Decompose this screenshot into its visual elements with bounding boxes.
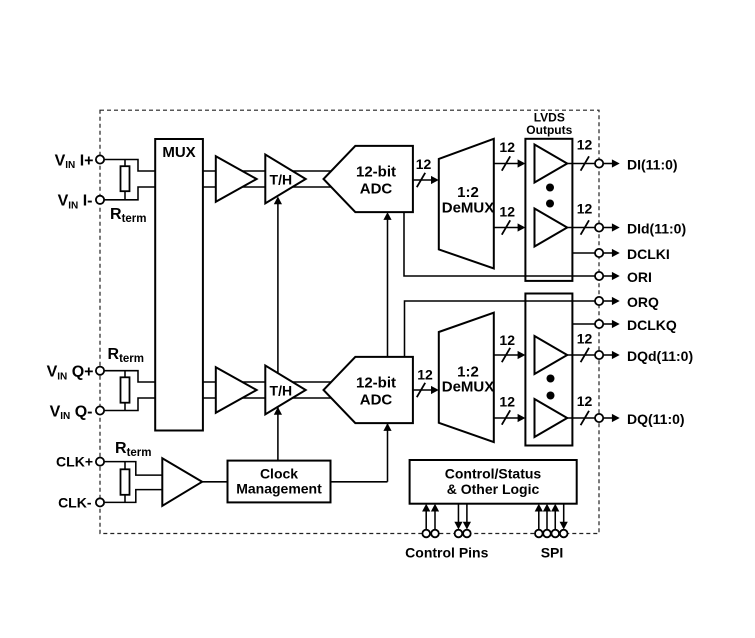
- arrowhead clock into ADC Q: [383, 423, 391, 431]
- svg-text:T/H: T/H: [270, 382, 293, 398]
- MUX block: [155, 139, 203, 431]
- terminal DCLKI: [595, 246, 670, 262]
- svg-text:12: 12: [499, 204, 515, 220]
- svg-text:CLK-: CLK-: [58, 494, 92, 510]
- ADC Q block: [324, 357, 413, 423]
- wire DeMUX Q output bus lower: [494, 417, 518, 419]
- svg-text:12: 12: [577, 201, 593, 217]
- control pin wire down 1: [457, 504, 459, 523]
- LVDS buffer DId: [535, 209, 568, 247]
- terminal CLK-: [96, 498, 104, 506]
- Clock Management block: [228, 461, 331, 503]
- wire DI bus to terminal: [567, 163, 595, 165]
- T/H I: [265, 155, 305, 204]
- svg-text:DI(11:0): DI(11:0): [627, 157, 678, 173]
- wire DQ bus to terminal: [567, 417, 595, 419]
- SPI terminal 4: [560, 530, 568, 538]
- svg-text:12: 12: [499, 139, 515, 155]
- wire DId bus to terminal: [567, 227, 595, 229]
- svg-text:12: 12: [499, 332, 515, 348]
- DeMUX Q block: [439, 313, 494, 442]
- wire ADC sampling clock vertical: [387, 214, 389, 482]
- svg-text:T/H: T/H: [270, 171, 293, 187]
- svg-text:DeMUX: DeMUX: [442, 379, 495, 396]
- bus label 12 DId: [577, 201, 593, 235]
- wire VIN Q- to MUX: [100, 398, 155, 411]
- amplifier Q: [216, 367, 257, 413]
- bus label 12 ADC Q out: [417, 367, 433, 398]
- wire clock buffer to Clock Management: [202, 481, 227, 483]
- svg-text:VIN Q-: VIN Q-: [50, 403, 93, 422]
- terminal ORQ: [595, 294, 659, 310]
- SPI terminal 1: [535, 530, 543, 538]
- terminal DQd: [595, 348, 693, 364]
- wire ORQ from ADC Q to output: [405, 301, 596, 357]
- LVDS buffer DQd: [535, 336, 568, 374]
- svg-text:ORQ: ORQ: [627, 294, 659, 310]
- svg-text:12: 12: [577, 393, 593, 409]
- SPI terminal 2: [543, 530, 551, 538]
- T/H Q: [265, 366, 305, 415]
- wire VIN I- to MUX: [100, 187, 155, 200]
- svg-text:12-bit: 12-bit: [356, 164, 396, 181]
- wire T/H sampling clock vertical: [277, 199, 279, 461]
- LVDS buffer DQ: [535, 399, 568, 437]
- svg-text:Control Pins: Control Pins: [405, 544, 488, 560]
- bus label 12 ADC I out: [416, 156, 432, 187]
- svg-text:Management: Management: [236, 481, 322, 497]
- svg-text:12-bit: 12-bit: [356, 375, 396, 392]
- terminal VIN I+: [96, 155, 104, 163]
- wire Rterm CLK stubs: [124, 462, 126, 503]
- ellipsis dots I: [546, 184, 554, 208]
- svg-text:12: 12: [417, 367, 433, 383]
- svg-text:ADC: ADC: [360, 392, 393, 409]
- wire CLK- to clock buffer: [100, 490, 162, 503]
- chip boundary dashed border: [100, 110, 599, 533]
- wire CLK+ to clock buffer: [100, 462, 162, 476]
- bus label 12 DeMUX I out upper: [499, 139, 515, 171]
- bus label 12 DeMUX Q out upper: [499, 332, 515, 362]
- wire VIN I+ to MUX: [100, 160, 155, 172]
- bus label 12 DI: [577, 137, 593, 171]
- arrowhead clock into T/H Q: [274, 407, 282, 415]
- svg-text:SPI: SPI: [541, 544, 564, 560]
- wire ORI from ADC I to output: [404, 212, 595, 276]
- SPI wire down 4: [563, 504, 565, 523]
- svg-text:CLK+: CLK+: [56, 454, 93, 470]
- wire Rterm Q stubs: [124, 371, 126, 411]
- svg-text:12: 12: [577, 331, 593, 347]
- wire DeMUX I output bus lower: [494, 227, 518, 229]
- svg-text:12: 12: [577, 137, 593, 153]
- terminal VIN Q+: [96, 367, 104, 375]
- LVDS output block Q: [525, 294, 572, 446]
- svg-text:VIN Q+: VIN Q+: [47, 364, 94, 383]
- svg-text:MUX: MUX: [162, 144, 195, 161]
- wire VIN Q+ to MUX: [100, 371, 155, 382]
- resistor Rterm CLK: [121, 469, 130, 495]
- control pin terminal 3: [455, 530, 463, 538]
- wire DeMUX Q output bus upper: [494, 354, 518, 356]
- wire DQd bus to terminal: [567, 354, 595, 356]
- wire Clock Management to ADC clock line: [331, 481, 388, 483]
- control pin wire up 2: [434, 510, 436, 530]
- bus label 12 DeMUX Q out lower: [499, 394, 515, 425]
- control pin terminal 4: [463, 530, 471, 538]
- wire DCLKQ to terminal: [572, 323, 595, 325]
- ADC I block: [324, 146, 413, 212]
- DeMUX I block: [439, 139, 494, 269]
- bus label 12 DQ: [577, 393, 593, 425]
- svg-text:Outputs: Outputs: [526, 123, 572, 137]
- control pin terminal 2: [431, 530, 439, 538]
- SPI wire up 3: [554, 510, 556, 530]
- svg-text:Clock: Clock: [260, 465, 298, 481]
- bus label 12 DQd: [577, 331, 593, 363]
- wire ADC Q to DeMUX Q bus: [413, 389, 431, 391]
- svg-text:DeMUX: DeMUX: [442, 199, 495, 216]
- terminal CLK+: [96, 458, 104, 466]
- terminal VIN I-: [96, 196, 104, 204]
- wire Q differential pair MUX to ADC: [203, 382, 340, 398]
- svg-text:& Other Logic: & Other Logic: [447, 481, 540, 497]
- control pin wire down 2: [466, 504, 468, 523]
- control pin wire up 1: [425, 510, 427, 530]
- terminal DQ: [595, 411, 685, 427]
- svg-text:ADC: ADC: [360, 181, 393, 198]
- wire Rterm I stubs: [124, 160, 126, 200]
- svg-text:Control/Status: Control/Status: [445, 465, 542, 481]
- terminal DCLKQ: [595, 317, 677, 333]
- terminal ORI: [595, 269, 652, 285]
- LVDS buffer DI: [535, 145, 568, 183]
- resistor Rterm I: [121, 166, 130, 191]
- arrowhead clock into T/H I: [274, 197, 282, 205]
- svg-text:DCLKI: DCLKI: [627, 246, 670, 262]
- Control/Status block: [410, 460, 577, 504]
- terminal DId: [595, 221, 686, 237]
- clock input buffer: [162, 458, 202, 506]
- svg-text:DCLKQ: DCLKQ: [627, 317, 677, 333]
- svg-text:12: 12: [416, 156, 432, 172]
- svg-text:DQ(11:0): DQ(11:0): [627, 411, 685, 427]
- svg-text:DQd(11:0): DQd(11:0): [627, 348, 693, 364]
- terminal VIN Q-: [96, 406, 104, 414]
- wire DCLKI to terminal: [572, 252, 595, 254]
- svg-text:ORI: ORI: [627, 269, 652, 285]
- SPI terminal 3: [551, 530, 559, 538]
- terminal DI: [595, 157, 678, 173]
- bus label 12 DeMUX I out lower: [499, 204, 515, 235]
- label LVDS Outputs: [526, 110, 572, 136]
- svg-text:DId(11:0): DId(11:0): [627, 221, 686, 237]
- amplifier I: [216, 156, 257, 202]
- control pin terminal 1: [422, 530, 430, 538]
- LVDS output block I: [525, 139, 572, 281]
- arrowhead clock into ADC I: [383, 212, 391, 220]
- ellipsis dots Q: [547, 375, 555, 400]
- svg-text:12: 12: [499, 394, 515, 410]
- resistor Rterm Q: [121, 377, 130, 402]
- wire I differential pair MUX to ADC: [203, 171, 340, 187]
- SPI wire up 1: [538, 510, 540, 530]
- SPI wire up 2: [546, 510, 548, 530]
- wire ADC I to DeMUX I bus: [413, 179, 431, 181]
- wire DeMUX I output bus upper: [494, 163, 518, 165]
